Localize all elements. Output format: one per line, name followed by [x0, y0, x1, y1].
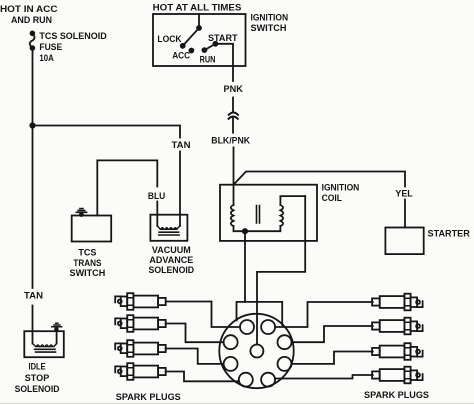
- switch contact dot RUN: [202, 48, 206, 52]
- switch contact dot START: [213, 42, 217, 46]
- cap tower circle LL: [224, 357, 238, 371]
- svg-text:ACC: ACC: [172, 51, 190, 62]
- wire BLU into vacuum solenoid: [156, 202, 158, 226]
- plug wire L2: [166, 324, 224, 343]
- wire feed into switch: [198, 14, 200, 28]
- wire BLU TCS switch to vacuum solenoid: [97, 160, 157, 215]
- wire coil negative to distributor cap: [244, 231, 246, 302]
- spark plug L1: [115, 293, 166, 310]
- label IDLE STOP SOLENOID: [15, 362, 60, 395]
- inline connector C1: [229, 113, 238, 119]
- svg-text:HOT AT ALL TIMES: HOT AT ALL TIMES: [153, 2, 242, 13]
- solenoid coil cup (idle stop): [33, 344, 57, 347]
- wire label BLK/PNK: [211, 136, 250, 147]
- spark plug R2: [372, 318, 423, 335]
- solenoid coil bumps (idle stop): [36, 345, 52, 347]
- label IGNITION SWITCH: [251, 13, 289, 35]
- cap tower circle TR: [261, 320, 275, 334]
- solenoid coil cup (vacuum advance): [157, 226, 180, 229]
- label TCS TRANS SWITCH: [70, 247, 106, 279]
- wire switch output: [215, 44, 233, 81]
- cap tower circle RL: [278, 357, 292, 371]
- svg-text:TAN: TAN: [172, 140, 191, 151]
- solenoid right lead (idle): [56, 331, 58, 343]
- wire label BLU: [148, 191, 165, 202]
- cap tower circle LU: [224, 335, 238, 349]
- spark plug L4: [115, 363, 166, 380]
- svg-text:SPARK PLUGS: SPARK PLUGS: [116, 392, 181, 403]
- svg-text:AND RUN: AND RUN: [11, 15, 52, 26]
- junction dot: [30, 123, 34, 127]
- svg-text:LOCK: LOCK: [157, 34, 181, 45]
- cap tower circle RU: [278, 335, 292, 349]
- svg-text:STOP: STOP: [25, 373, 50, 384]
- switch pivot dot: [197, 26, 201, 30]
- svg-text:HOT IN ACC: HOT IN ACC: [0, 4, 58, 15]
- switch contact dot LOCK: [181, 44, 185, 48]
- cap tower circle BL: [239, 373, 253, 387]
- svg-text:RUN: RUN: [200, 54, 216, 65]
- svg-text:YEL: YEL: [395, 188, 412, 199]
- svg-text:BLK/PNK: BLK/PNK: [211, 136, 250, 147]
- label VACUUM ADVANCE SOLENOID: [149, 245, 195, 276]
- distributor cap terminal box: [237, 302, 283, 325]
- svg-text:TAN: TAN: [24, 291, 43, 302]
- label IGNITION COIL: [322, 183, 360, 204]
- fuse F1 TCS SOLENOID FUSE 10A: [30, 31, 35, 49]
- cap tower circle TL: [240, 320, 254, 334]
- starter M1 box: [385, 228, 423, 255]
- wire YEL from coil B+ to starter: [234, 172, 406, 187]
- distributor body circle: [219, 314, 293, 388]
- wire label TAN (right): [172, 140, 191, 151]
- plug wire R2: [292, 326, 373, 342]
- label SPARK PLUGS right: [364, 390, 430, 401]
- wire BLK/PNK to coil: [233, 147, 235, 205]
- spark plug R3: [372, 343, 423, 360]
- solenoid core hatch (idle): [35, 349, 56, 352]
- wire main TAN vertical: [32, 51, 34, 289]
- plug wire R4: [275, 375, 373, 379]
- wire coil HV secondary to distributor rotor: [257, 196, 305, 344]
- ground (idle solenoid): [52, 323, 62, 331]
- cap tower circle BR: [261, 373, 275, 387]
- svg-text:FUSE: FUSE: [39, 42, 62, 53]
- idle stop solenoid L2 box: [24, 331, 64, 357]
- svg-text:SWITCH: SWITCH: [251, 23, 287, 34]
- svg-text:10A: 10A: [39, 53, 53, 64]
- spark plug R4: [372, 367, 423, 384]
- wire label TAN (left): [24, 291, 43, 302]
- TCS trans switch S1 box: [72, 216, 112, 242]
- switch position labels: [157, 33, 237, 65]
- plug wire L1: [166, 302, 240, 328]
- scan artifact line bottom: [0, 403, 474, 404]
- wire label YEL: [395, 188, 412, 199]
- svg-text:TCS: TCS: [78, 247, 97, 258]
- spark plug L3: [115, 340, 166, 357]
- solenoid core hatch: [159, 232, 179, 235]
- wire below connector: [232, 118, 234, 133]
- label SPARK PLUGS left: [116, 392, 181, 403]
- svg-text:IGNITION: IGNITION: [251, 13, 289, 24]
- svg-text:TCS SOLENOID: TCS SOLENOID: [39, 31, 106, 42]
- svg-text:START: START: [208, 33, 238, 44]
- wire PNK below label: [232, 98, 234, 112]
- label STARTER: [428, 228, 470, 239]
- coil secondary top lead: [280, 196, 305, 205]
- ignition switch SW1 box: [153, 14, 246, 66]
- fuse value label: [39, 31, 106, 64]
- ignition coil T1 box: [220, 185, 317, 241]
- wire label PNK: [224, 84, 243, 95]
- switch contact dot ACC: [189, 49, 193, 53]
- plug wire L4: [166, 372, 239, 382]
- svg-text:IDLE: IDLE: [29, 362, 46, 373]
- wire YEL into starter: [404, 200, 406, 228]
- node label HOT AT ALL TIMES: [153, 2, 242, 13]
- switch lever RUN-START arm: [204, 44, 215, 50]
- coil primary winding: [231, 205, 234, 226]
- plug wire L3: [166, 349, 224, 364]
- plug wire R3: [292, 352, 373, 364]
- svg-text:SOLENOID: SOLENOID: [149, 265, 195, 276]
- ground (TCS switch): [76, 209, 86, 218]
- distributor rotor center circle: [250, 345, 263, 358]
- wire TAN into idle solenoid: [32, 306, 34, 344]
- wire TAN drop into vacuum solenoid: [179, 152, 181, 226]
- svg-text:SWITCH: SWITCH: [70, 268, 106, 279]
- plug wire R1: [275, 302, 373, 327]
- svg-text:SOLENOID: SOLENOID: [15, 384, 60, 395]
- solenoid coil bumps (vacuum advance): [161, 228, 177, 230]
- junction dot coil negative: [243, 229, 247, 233]
- wire TAN branch to vacuum solenoid: [33, 126, 181, 138]
- spark plug L2: [115, 315, 166, 332]
- node label HOT IN ACC AND RUN: [0, 4, 58, 26]
- svg-text:SPARK PLUGS: SPARK PLUGS: [364, 390, 430, 401]
- svg-text:STARTER: STARTER: [428, 228, 470, 239]
- vacuum advance solenoid L1 box: [150, 215, 187, 241]
- switch lever LOCK arm: [183, 28, 199, 46]
- spark plug R1: [372, 294, 423, 311]
- coil bottom rail: [234, 226, 281, 231]
- svg-text:BLU: BLU: [148, 191, 165, 202]
- svg-text:COIL: COIL: [322, 193, 342, 204]
- svg-text:PNK: PNK: [224, 84, 243, 95]
- coil core bars: [257, 206, 260, 224]
- coil secondary winding: [280, 205, 283, 226]
